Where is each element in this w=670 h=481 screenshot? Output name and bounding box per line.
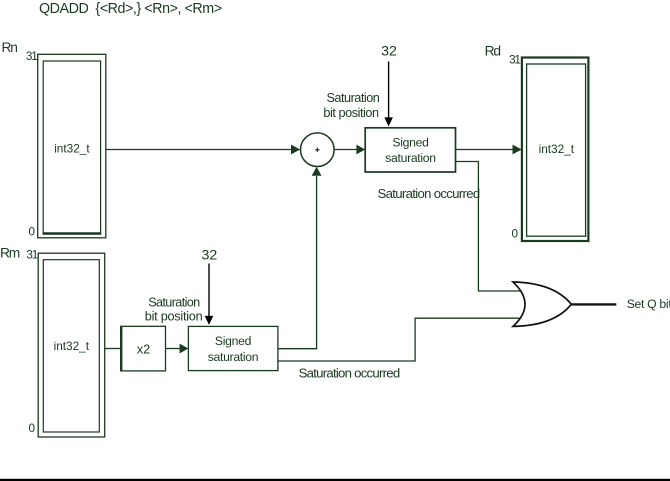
register Rn outer box xyxy=(38,54,106,238)
wire adder to upper saturation box xyxy=(334,149,358,151)
wire lower saturation occurred to OR gate xyxy=(278,318,522,361)
svg-text:int32_t: int32_t xyxy=(539,142,575,156)
wire x2 to lower saturation box xyxy=(166,348,181,350)
bottom page border line xyxy=(0,479,670,481)
lower black arrow 32 into saturation box xyxy=(208,264,210,317)
adder circle xyxy=(301,133,335,167)
svg-text:int32_t: int32_t xyxy=(54,339,90,353)
svg-text:31: 31 xyxy=(509,54,520,67)
register Rm outer box xyxy=(38,253,105,437)
svg-text:Rn: Rn xyxy=(2,40,18,55)
svg-text:Saturation: Saturation xyxy=(326,91,379,105)
adder plus sign xyxy=(315,149,319,151)
Rn inner box thick bottom edge xyxy=(43,232,102,234)
arrowhead up into adder xyxy=(312,167,322,176)
wire Rn to adder xyxy=(106,149,292,151)
svg-text:saturation: saturation xyxy=(208,350,259,364)
svg-text:Rm: Rm xyxy=(0,246,20,261)
wire upper saturation occurred to OR gate xyxy=(456,162,523,292)
arrowhead into lower saturation box xyxy=(180,344,189,354)
register Rn inner box xyxy=(43,61,100,234)
wire lower saturation box to adder xyxy=(278,176,317,349)
upper signed saturation box U1 xyxy=(365,128,455,172)
register Rm inner box xyxy=(43,260,99,432)
svg-text:int32_t: int32_t xyxy=(54,142,90,156)
x2 box thick left edge xyxy=(120,326,122,371)
wire Rm to x2 box xyxy=(105,348,121,350)
svg-text:Signed: Signed xyxy=(392,135,428,149)
arrowhead into adder from Rn xyxy=(291,145,300,155)
OR gate output wire to Set Q bit xyxy=(571,303,616,305)
arrowhead into upper saturation box xyxy=(356,145,365,155)
svg-text:0: 0 xyxy=(28,422,35,435)
svg-text:Set Q bit: Set Q bit xyxy=(627,297,670,311)
svg-text:31: 31 xyxy=(26,249,37,262)
svg-text:x2: x2 xyxy=(137,342,151,357)
svg-text:Saturation occurred: Saturation occurred xyxy=(378,186,480,201)
register Rd outer box xyxy=(522,58,589,242)
svg-text:0: 0 xyxy=(28,226,35,239)
svg-text:32: 32 xyxy=(381,44,397,60)
svg-text:saturation: saturation xyxy=(385,151,436,165)
register Rd inner box xyxy=(527,64,586,236)
upper black arrow 32 into saturation box xyxy=(388,62,390,119)
svg-text:QDADD {<Rd>,} <Rn>, <Rm>: QDADD {<Rd>,} <Rn>, <Rm> xyxy=(39,1,222,17)
svg-text:bit position: bit position xyxy=(323,106,379,120)
svg-text:Signed: Signed xyxy=(215,334,251,348)
svg-text:31: 31 xyxy=(26,50,37,63)
wire upper saturation box to Rd xyxy=(456,149,514,151)
OR gate xyxy=(513,282,571,326)
arrowhead into Rd xyxy=(513,145,522,155)
svg-text:bit position: bit position xyxy=(145,310,203,324)
svg-text:Saturation occurred: Saturation occurred xyxy=(299,365,400,380)
svg-text:32: 32 xyxy=(202,247,218,263)
svg-text:Rd: Rd xyxy=(485,44,501,59)
multiplier x2 box xyxy=(121,326,166,371)
lower signed saturation box U2 xyxy=(188,326,278,370)
svg-text:Saturation: Saturation xyxy=(148,295,200,309)
svg-text:0: 0 xyxy=(511,228,518,241)
